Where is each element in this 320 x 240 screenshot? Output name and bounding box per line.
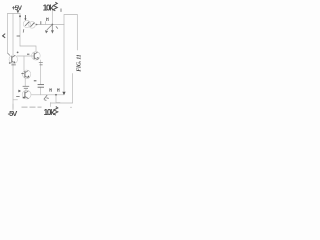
transistor Q1 (8, 53, 18, 64)
node minus tick (34, 80, 37, 82)
svg-text:FIG. 11: FIG. 11 (77, 54, 83, 72)
capacitor marks under Q1 (9, 62, 16, 65)
wire x20 branch (19, 14, 21, 47)
wire main horizontal y24.5 (36, 24, 64, 26)
node jog at x44 (40, 21, 42, 24)
wire stub x45 (45, 22, 47, 25)
wire collector rail Q1 (12, 14, 14, 56)
wire Q4 emitter to ground (24, 78, 26, 86)
resistor R1 with label 10k top (43, 2, 58, 12)
node base arrow into Q3 (18, 90, 21, 93)
wire lower right vertical (72, 74, 74, 104)
node tick right of stub (56, 26, 58, 28)
resistor R2 with label 10k bottom (44, 107, 58, 118)
node junction dot (51, 24, 53, 26)
node tick x20 junction (17, 35, 20, 37)
wire y46 to Q2 collector (20, 46, 36, 52)
node arrow on x64 line (62, 92, 65, 95)
transistor Q4 (21, 70, 30, 78)
node mark top right (60, 9, 62, 12)
transistor Q2 (32, 52, 41, 61)
node tick near Q2 emitter chain (39, 63, 43, 65)
node junction dot output (55, 94, 57, 96)
node speck bottom right (70, 107, 71, 108)
wire Q2 emitter chain down (40, 60, 42, 84)
wire stub R top (51, 11, 53, 25)
wire top rail (8, 13, 21, 15)
node arrow under label (16, 10, 19, 13)
wire x64 long drop (63, 25, 65, 92)
wire cap to output node (40, 88, 42, 95)
wire right outer drop (76, 15, 78, 51)
wire supply stub bottom (12, 104, 14, 109)
wire Q3 output to right (31, 94, 64, 96)
svg-text:-5V: -5V (8, 109, 18, 118)
wire dashed band bottom (22, 106, 42, 108)
node dot mid left (17, 52, 19, 54)
ground (23, 86, 30, 90)
ground slanted (44, 95, 49, 100)
transistor Q3 (22, 90, 31, 99)
transistor pair circles top (23, 20, 37, 28)
node label h2 (58, 88, 60, 91)
wire Q1 emitter down (12, 64, 14, 110)
wire bottom comp stem (50, 103, 52, 107)
wire left rail (7, 14, 9, 54)
wire bottom rail (51, 102, 73, 104)
wire junction drop to Q4 (23, 56, 25, 70)
node Q2 base junction (27, 53, 29, 55)
node input mark left (3, 34, 6, 38)
wire Q1 to Q2 base (17, 55, 34, 57)
transistor Q5 emitter diagonal (45, 25, 52, 34)
node label 41 (24, 15, 26, 19)
node label h left (47, 18, 49, 21)
capacitor C2 plates (38, 85, 44, 88)
transistor Q5 collector diagonal (51, 25, 54, 34)
wire output drop (56, 95, 60, 103)
node label h1 (50, 88, 52, 91)
wire base twig bottom left (13, 99, 18, 101)
node stem below circle (22, 29, 25, 32)
wire loop up right (64, 15, 77, 25)
